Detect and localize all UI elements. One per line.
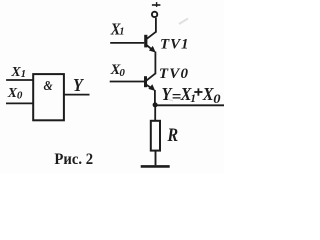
svg-text:TV0: TV0 [159,66,189,82]
svg-text:Рис. 2: Рис. 2 [54,150,93,168]
svg-text:R: R [166,124,178,146]
svg-text:0: 0 [119,67,125,79]
svg-text:1: 1 [190,93,196,105]
svg-text:1: 1 [119,27,124,38]
svg-text:1: 1 [21,69,26,80]
svg-text:0: 0 [17,90,23,102]
svg-text:0: 0 [213,92,220,106]
svg-text:Y: Y [73,75,84,95]
svg-text:&: & [44,78,53,93]
svg-text:TV1: TV1 [160,37,189,53]
